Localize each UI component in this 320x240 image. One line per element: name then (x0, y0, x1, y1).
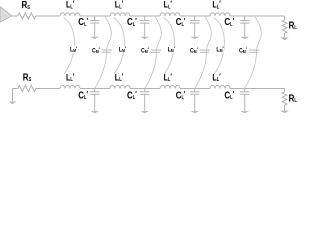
svg-text:LM′: LM′ (119, 46, 127, 53)
svg-text:LL′: LL′ (212, 0, 221, 10)
svg-text:LL′: LL′ (115, 72, 124, 83)
svg-text:CM′: CM′ (239, 47, 247, 54)
svg-text:CL′: CL′ (224, 16, 234, 27)
svg-text:CM′: CM′ (92, 47, 100, 54)
svg-text:CL′: CL′ (176, 89, 186, 100)
svg-text:LL′: LL′ (115, 0, 124, 10)
svg-text:LL′: LL′ (66, 0, 75, 10)
svg-text:LL′: LL′ (212, 72, 221, 83)
svg-text:CL′: CL′ (78, 16, 88, 27)
svg-text:CL′: CL′ (224, 89, 234, 100)
svg-text:CL′: CL′ (127, 89, 137, 100)
svg-text:CM′: CM′ (141, 47, 149, 54)
svg-text:CL′: CL′ (176, 16, 186, 27)
svg-text:LL′: LL′ (66, 72, 75, 83)
svg-text:LM′: LM′ (168, 46, 176, 53)
svg-text:LM′: LM′ (70, 46, 78, 53)
svg-text:CL′: CL′ (78, 89, 88, 100)
svg-text:CM′: CM′ (190, 47, 198, 54)
svg-text:LM′: LM′ (216, 46, 224, 53)
svg-text:CL′: CL′ (127, 16, 137, 27)
svg-text:LL′: LL′ (164, 0, 173, 10)
